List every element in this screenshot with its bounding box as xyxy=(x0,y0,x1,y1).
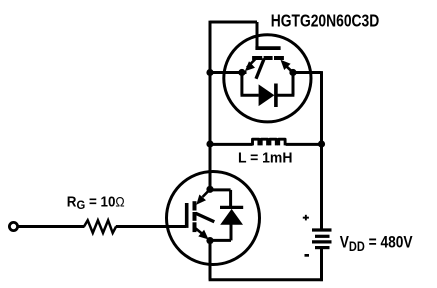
wire: right bus upper (top device right terminal down to battery +) xyxy=(320,71,323,229)
diode D2: triangle xyxy=(220,209,243,225)
wire: gate wire from terminal to RG xyxy=(16,225,85,228)
IGBT U1: emitter lead with arrow (left) xyxy=(247,59,256,68)
wire: inductor rail right xyxy=(286,143,322,146)
node: left bus / midline junction xyxy=(206,69,213,76)
IGBT Q2: channel dash 1 xyxy=(193,201,197,210)
diode D1: anode lead xyxy=(241,94,259,97)
node: inductor right junction xyxy=(318,140,325,147)
IGBT U1: emitter arrowhead xyxy=(245,61,255,71)
terminal: gate drive input open circle xyxy=(9,222,17,230)
label: L = 1mH xyxy=(238,150,292,167)
diode D1: cathode lead xyxy=(276,94,295,97)
node: U1 collector terminal xyxy=(289,69,296,76)
resistor RG: zigzag xyxy=(84,220,116,233)
node: Q2 collector terminal xyxy=(206,186,213,193)
svg-text:L = 1mH: L = 1mH xyxy=(238,150,292,167)
wire: top gate loop horizontal xyxy=(210,21,257,24)
diode D2: cathode lead vertical xyxy=(229,190,232,207)
diode D1 (U1 copack): anode branch left vertical xyxy=(240,73,243,96)
IGBT U1: channel dash 1 xyxy=(252,56,262,60)
wire: bottom return wire xyxy=(209,278,323,281)
diode D2: cathode bar xyxy=(220,206,243,209)
IGBT Q2 (DUT): envelope circle xyxy=(167,172,260,265)
IGBT U1: body middle slant xyxy=(256,59,264,79)
wire: gate wire from RG to Q2 xyxy=(116,225,186,228)
diode D2: anode lead vertical xyxy=(230,224,233,240)
battery VDD: plate 2 (short) xyxy=(315,235,330,238)
diode D1: cathode bar xyxy=(274,84,278,108)
svg-text:VDD = 480V: VDD = 480V xyxy=(340,233,413,254)
wire: left bus vertical (Q1 bottom node down to bottom wire) xyxy=(209,241,212,280)
diode D1: triangle xyxy=(259,84,275,106)
IGBT U1: channel dash 3 xyxy=(274,56,284,60)
IGBT U1: collector arrowhead xyxy=(281,60,291,70)
IGBT U1: gate lead vertical xyxy=(256,22,259,50)
IGBT U1: collector lead (right) xyxy=(285,65,293,73)
wire: left bus vertical (top wire down to Q1 top node) xyxy=(209,21,212,190)
wire: top device midline left stub xyxy=(210,71,247,74)
IGBT Q2: collector arrowhead xyxy=(196,195,206,205)
IGBT Q2: body middle slant xyxy=(196,213,215,222)
IGBT U1 HGTG20N60C3D: envelope circle xyxy=(224,35,311,122)
IGBT U1: gate bar xyxy=(255,46,280,50)
IGBT Q2: gate bar xyxy=(185,203,189,228)
diode D2: bottom branch xyxy=(210,239,231,242)
label: VDD = 480V xyxy=(340,233,413,254)
node: inductor left junction xyxy=(206,140,213,147)
label: RG = 10ohm xyxy=(67,193,125,212)
battery VDD: plate 3 (long) xyxy=(312,240,332,243)
inductor L1: hump 3 xyxy=(270,139,276,145)
diode D2 (Q2 copack): top branch xyxy=(210,188,231,191)
svg-text:HGTG20N60C3D: HGTG20N60C3D xyxy=(271,12,380,31)
inductor L1: hump 2 xyxy=(261,139,267,145)
node: U1 emitter terminal xyxy=(238,69,245,76)
IGBT Q2: channel dash 3 xyxy=(193,222,197,232)
wire: top device midline right stub xyxy=(290,71,322,74)
label: battery plus sign xyxy=(303,215,309,221)
wire: right bus lower (battery - down to bottom wire) xyxy=(320,249,323,281)
label: battery minus sign xyxy=(305,254,310,257)
battery VDD: plate 1 (long, +) xyxy=(312,228,332,231)
IGBT Q2: collector lead from top node xyxy=(203,189,211,197)
node: Q2 emitter terminal xyxy=(206,237,213,244)
diode D1: cathode branch right vertical xyxy=(292,73,295,96)
IGBT Q2: emitter lead with arrow xyxy=(196,228,203,234)
wire: inductor rail left xyxy=(210,143,253,146)
svg-text:RG = 10Ω: RG = 10Ω xyxy=(67,193,125,212)
battery VDD: plate 4 (short) xyxy=(315,246,330,249)
IGBT Q2: channel dash 2 xyxy=(193,212,197,221)
label: part number HGTG20N60C3D xyxy=(271,12,380,31)
inductor L1: hump 4 xyxy=(279,139,285,145)
IGBT U1: channel dash 2 xyxy=(264,56,273,60)
inductor L1: hump 1 xyxy=(253,139,259,145)
IGBT Q2: emitter arrowhead xyxy=(198,230,208,240)
